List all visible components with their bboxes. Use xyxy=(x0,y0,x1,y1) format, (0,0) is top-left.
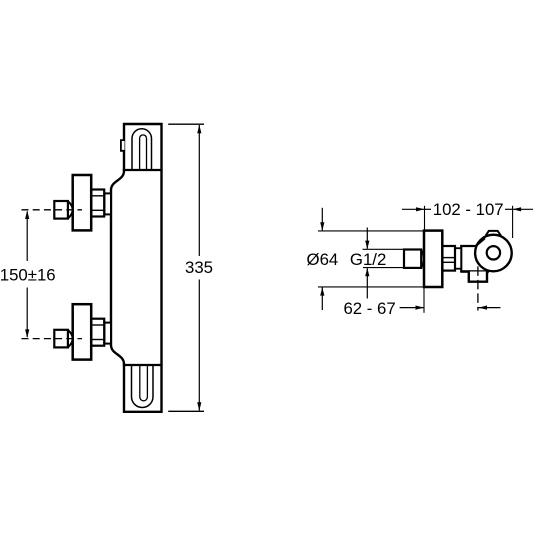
mixer body outline xyxy=(111,124,162,412)
bottom cap inner slot xyxy=(140,365,148,401)
body bottom tangent line xyxy=(461,270,489,272)
arrow down xyxy=(197,402,201,411)
left arrow line xyxy=(400,307,424,309)
eccentric cap U1 xyxy=(68,201,73,218)
left extension line xyxy=(424,206,426,230)
knob groove line xyxy=(442,257,455,259)
nut facet line xyxy=(91,209,104,211)
arrow up xyxy=(320,287,324,296)
svg-text:62 - 67: 62 - 67 xyxy=(343,299,395,318)
svg-text:G1/2: G1/2 xyxy=(350,250,386,269)
handle circle xyxy=(475,235,512,272)
inner circle (screw) xyxy=(487,246,500,259)
wall flange (side) xyxy=(424,231,442,287)
eccentric cap (side) xyxy=(421,250,424,267)
washer U2 xyxy=(104,323,111,344)
wall flange U2 xyxy=(73,304,92,359)
bottom extension line xyxy=(318,286,424,288)
bottom outlet port xyxy=(469,272,487,282)
bottom cap separator line xyxy=(123,364,163,366)
dim line stub left xyxy=(425,208,432,210)
arrow up xyxy=(25,211,29,220)
dim line upper segment xyxy=(198,125,200,256)
svg-text:102 - 107: 102 - 107 xyxy=(433,200,504,219)
chamfer line to circle xyxy=(476,238,485,246)
hex nut U1 xyxy=(91,190,104,217)
right arrowhead xyxy=(513,207,522,211)
svg-text:335: 335 xyxy=(185,258,213,277)
top extension line xyxy=(363,248,404,250)
arrow up xyxy=(365,268,369,277)
arrow down xyxy=(320,222,324,231)
hex nut U2 xyxy=(91,319,104,346)
dim line lower segment xyxy=(26,288,28,338)
bottom extension line xyxy=(363,267,403,269)
nut facet line xyxy=(91,324,104,326)
dim line below xyxy=(321,288,323,311)
washer U1 xyxy=(104,193,111,214)
top cap outer U-tube xyxy=(132,129,152,170)
svg-text:150±16: 150±16 xyxy=(0,266,56,285)
svg-text:Ø64: Ø64 xyxy=(307,250,339,269)
arrow up xyxy=(197,125,201,134)
bottom cap outer U-tube xyxy=(132,365,154,407)
G1/2 connector U2 xyxy=(54,330,68,348)
top extension line xyxy=(168,123,204,125)
stop knob (nut) xyxy=(442,246,455,271)
collar xyxy=(455,248,461,269)
dim line above xyxy=(321,208,323,231)
G1/2 connector U1 xyxy=(54,201,68,219)
right extension line xyxy=(512,206,514,238)
knob groove line xyxy=(442,261,455,263)
left arrowhead xyxy=(416,207,425,211)
handle clip tab xyxy=(486,231,501,236)
temperature stop tab on top cap xyxy=(121,140,125,151)
dim line below xyxy=(366,268,368,298)
top cap separator line xyxy=(123,169,163,171)
top cap inner slot xyxy=(140,135,147,170)
dim line above xyxy=(366,228,368,249)
dim line upper segment xyxy=(26,212,28,262)
nut facet line xyxy=(91,339,104,341)
wall flange U1 xyxy=(73,175,92,230)
dim line lower segment xyxy=(198,280,200,411)
left extension line xyxy=(423,288,425,313)
arrow down xyxy=(365,241,369,250)
left arrow line xyxy=(402,208,425,210)
bottom extension line xyxy=(168,410,204,412)
centerline U2 (dashed) xyxy=(22,338,83,340)
right arrow line xyxy=(479,307,501,309)
arrow down xyxy=(25,329,29,338)
G1/2 connector (side) xyxy=(404,250,421,268)
left arrowhead (points right) xyxy=(416,306,425,310)
eccentric cap U2 xyxy=(68,330,73,347)
dim line stub right xyxy=(505,208,513,210)
top extension line xyxy=(318,230,424,232)
centerline U1 (dashed) xyxy=(22,209,83,211)
right arrow line xyxy=(513,208,533,210)
valve body block xyxy=(461,246,476,272)
nut facet line xyxy=(91,195,104,197)
right arrowhead (points left) xyxy=(479,306,488,310)
outlet centerline (dashed) xyxy=(477,266,479,310)
